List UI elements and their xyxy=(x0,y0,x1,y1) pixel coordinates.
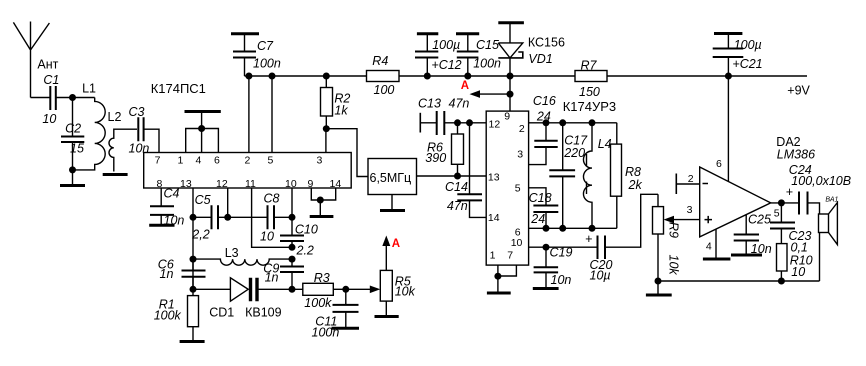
svg-text:L3: L3 xyxy=(225,246,239,260)
pin 6 wire xyxy=(529,227,617,229)
svg-text:150: 150 xyxy=(579,85,600,99)
svg-text:6,5МГц: 6,5МГц xyxy=(370,171,412,185)
capacitor C3 xyxy=(129,105,150,156)
speaker BA1 xyxy=(819,197,839,282)
svg-text:2: 2 xyxy=(688,173,694,185)
svg-text:10k: 10k xyxy=(667,255,681,276)
svg-text:ВА1: ВА1 xyxy=(825,197,838,204)
svg-text:10µ: 10µ xyxy=(590,269,611,283)
pins 9,14 bracket to common xyxy=(310,188,336,217)
svg-text:5: 5 xyxy=(515,182,521,194)
pin 2 wire right xyxy=(529,122,617,124)
svg-text:10n: 10n xyxy=(751,242,772,256)
svg-text:C19: C19 xyxy=(550,246,573,260)
svg-text:9: 9 xyxy=(308,178,314,190)
svg-text:7: 7 xyxy=(155,154,161,166)
resistor R7 xyxy=(575,59,607,100)
capacitor C5 xyxy=(191,193,227,242)
svg-text:L2: L2 xyxy=(108,110,122,124)
svg-text:C3: C3 xyxy=(129,105,145,119)
svg-text:VD1: VD1 xyxy=(528,52,552,66)
resistor R6 xyxy=(425,123,463,176)
wire and arrow to R5 xyxy=(346,286,381,294)
filter Z1 6.5MHz xyxy=(368,159,417,195)
pin 4 ground xyxy=(703,229,731,259)
antenna xyxy=(13,22,58,98)
svg-text:+: + xyxy=(585,232,592,246)
svg-text:C8: C8 xyxy=(264,192,280,206)
C4 on pin 8 xyxy=(149,187,184,228)
IC U2 K174UR3 xyxy=(486,99,616,265)
svg-text:R9: R9 xyxy=(667,222,681,238)
svg-text:100: 100 xyxy=(374,83,395,97)
ground below R9 xyxy=(646,281,672,295)
potentiometer R9 xyxy=(653,194,700,281)
svg-text:6: 6 xyxy=(716,158,722,170)
bottom rail R9 to speaker xyxy=(658,280,820,282)
resistor R4 xyxy=(367,54,400,97)
svg-text:C18: C18 xyxy=(529,191,552,205)
svg-text:2k: 2k xyxy=(628,178,643,192)
svg-text:R4: R4 xyxy=(372,54,388,68)
capacitor C14 xyxy=(445,123,486,218)
potentiometer R5 xyxy=(375,236,416,317)
capacitor C2 xyxy=(61,98,84,170)
svg-text:100k: 100k xyxy=(154,309,182,323)
inductor L3 xyxy=(193,246,292,265)
ground below filter xyxy=(380,195,405,211)
svg-text:12: 12 xyxy=(216,178,228,190)
pins 1,4,6 bracket to common xyxy=(185,112,221,153)
svg-text:R7: R7 xyxy=(581,59,598,73)
capacitor C25 xyxy=(731,213,772,257)
capacitor C16 xyxy=(529,94,558,165)
pin 5 wire up xyxy=(271,76,273,153)
pin 11 wire down xyxy=(252,188,292,247)
svg-text:C13: C13 xyxy=(418,97,441,111)
svg-text:11: 11 xyxy=(245,178,256,190)
svg-text:4: 4 xyxy=(196,154,202,166)
svg-text:10n: 10n xyxy=(551,273,572,287)
wire filter to pin 13 xyxy=(417,175,487,177)
svg-text:C4: C4 xyxy=(164,187,180,201)
resistor R10 xyxy=(777,244,813,281)
svg-text:2,2: 2,2 xyxy=(191,228,209,242)
svg-text:47n: 47n xyxy=(447,199,468,213)
svg-text:+C12: +C12 xyxy=(431,58,461,72)
ground below C2 xyxy=(60,170,85,186)
svg-text:7: 7 xyxy=(507,249,513,261)
svg-text:10k: 10k xyxy=(395,285,416,299)
svg-text:C14: C14 xyxy=(445,180,468,194)
pin 3 wire xyxy=(325,129,327,153)
svg-text:C1: C1 xyxy=(43,73,59,87)
ground below L2 xyxy=(103,173,128,176)
svg-text:12: 12 xyxy=(489,119,501,131)
wire C3 to pin 7 xyxy=(144,129,159,152)
wire C1 to L1 xyxy=(56,97,95,99)
capacitor C23 xyxy=(770,203,811,255)
output wire pin 5 xyxy=(771,202,799,204)
svg-text:100µ: 100µ xyxy=(432,38,460,52)
svg-text:1n: 1n xyxy=(160,267,174,281)
pin 12 wire xyxy=(444,122,486,124)
capacitor C7 xyxy=(231,34,281,76)
pin 10 wire xyxy=(529,246,598,248)
inductor L4 xyxy=(583,123,611,229)
node dot C2 bottom xyxy=(69,166,76,173)
svg-text:A: A xyxy=(392,238,400,250)
IC2 pins 1,7 to ground xyxy=(487,265,517,293)
svg-text:10: 10 xyxy=(285,178,297,190)
C9 stems xyxy=(291,259,293,289)
svg-text:10n: 10n xyxy=(129,142,150,156)
svg-text:10: 10 xyxy=(791,265,805,279)
wire antenna to C1 xyxy=(31,97,51,99)
svg-text:1k: 1k xyxy=(334,104,348,118)
svg-text:К174ПС1: К174ПС1 xyxy=(151,81,206,96)
capacitor C20 xyxy=(585,194,658,282)
C6 stems xyxy=(192,259,194,289)
svg-text:100n: 100n xyxy=(253,57,281,71)
capacitor C8 xyxy=(260,192,292,244)
svg-text:C16: C16 xyxy=(533,94,556,108)
svg-text:Ант: Ант xyxy=(37,58,58,72)
svg-text:C5: C5 xyxy=(195,193,211,207)
wire R2 to filter xyxy=(326,129,368,177)
svg-text:КС156: КС156 xyxy=(528,36,565,50)
svg-text:C15: C15 xyxy=(476,38,499,52)
svg-text:4: 4 xyxy=(706,241,712,253)
resistor R3 xyxy=(303,271,346,310)
pin 2 input terminal xyxy=(676,174,699,195)
capacitor C9 xyxy=(263,262,304,285)
capacitor C6 xyxy=(158,258,206,282)
capacitor C24 xyxy=(786,163,851,215)
capacitor C11 xyxy=(312,289,360,339)
svg-text:10: 10 xyxy=(511,237,523,249)
resistor R1 xyxy=(154,289,205,341)
svg-text:6: 6 xyxy=(214,154,220,166)
svg-text:10: 10 xyxy=(42,112,56,126)
capacitor C10 xyxy=(280,217,318,257)
zener VD1 KS156 xyxy=(498,23,565,76)
svg-text:L4: L4 xyxy=(598,137,612,151)
svg-text:3: 3 xyxy=(317,154,323,166)
svg-text:10: 10 xyxy=(260,230,274,244)
svg-text:1: 1 xyxy=(490,249,496,261)
svg-text:1n: 1n xyxy=(265,271,279,285)
pin 9 wire xyxy=(509,76,511,111)
svg-text:0,1: 0,1 xyxy=(791,241,808,255)
IC U1 K174PS1 xyxy=(144,81,352,190)
pin 6 wire to rail xyxy=(727,76,729,182)
svg-text:9: 9 xyxy=(504,111,510,123)
svg-text:КВ109: КВ109 xyxy=(245,306,282,320)
resistor R2 xyxy=(321,76,351,129)
svg-text:15: 15 xyxy=(70,142,84,156)
svg-text:220: 220 xyxy=(563,146,585,160)
capacitor C12 xyxy=(415,34,462,76)
node dot C1/C2/L1 xyxy=(69,94,76,101)
svg-text:C2: C2 xyxy=(65,122,81,136)
svg-text:3: 3 xyxy=(517,148,523,160)
inductor L1 xyxy=(73,82,106,170)
svg-text:100n: 100n xyxy=(312,326,340,340)
pin 10 wire down xyxy=(291,188,293,217)
svg-text:К174УР3: К174УР3 xyxy=(563,99,616,114)
svg-text:CD1: CD1 xyxy=(209,306,234,320)
svg-text:C7: C7 xyxy=(257,39,274,53)
svg-text:10n: 10n xyxy=(164,214,185,228)
capacitor C1 xyxy=(42,73,59,126)
svg-text:C10: C10 xyxy=(295,223,318,237)
svg-text:100n: 100n xyxy=(473,57,501,71)
svg-text:1: 1 xyxy=(178,154,184,166)
capacitor C19 xyxy=(533,246,573,289)
varicap CD1 KV109 xyxy=(193,278,303,320)
op-amp DA2 LM386 xyxy=(687,135,815,252)
svg-text:13: 13 xyxy=(180,178,192,190)
svg-text:13: 13 xyxy=(488,172,500,184)
capacitor C15 xyxy=(456,34,501,76)
svg-text:3: 3 xyxy=(687,204,693,216)
svg-text:R8: R8 xyxy=(625,165,641,179)
svg-text:2: 2 xyxy=(519,123,525,135)
svg-text:47n: 47n xyxy=(449,97,470,111)
svg-text:2.2: 2.2 xyxy=(296,244,314,258)
svg-text:R3: R3 xyxy=(314,271,330,285)
svg-text:5: 5 xyxy=(774,208,780,220)
svg-text:100k: 100k xyxy=(304,296,332,310)
svg-text:+C21: +C21 xyxy=(732,57,762,71)
capacitor C17 xyxy=(549,123,588,229)
resistor R8 xyxy=(611,123,643,229)
svg-text:2: 2 xyxy=(245,154,251,166)
svg-text:390: 390 xyxy=(425,151,446,165)
pin 12 wire down xyxy=(227,188,229,217)
svg-text:C25: C25 xyxy=(748,213,771,227)
svg-text:5: 5 xyxy=(268,154,274,166)
wire C5 to C8 xyxy=(228,216,268,218)
svg-text:100µ: 100µ xyxy=(734,38,762,52)
svg-text:100,0x10В: 100,0x10В xyxy=(791,174,851,188)
+9V rail xyxy=(245,75,808,77)
capacitor C13 xyxy=(418,97,469,136)
svg-text:L1: L1 xyxy=(82,82,96,96)
capacitor C18 xyxy=(529,188,559,229)
capacitor C21 xyxy=(713,34,763,77)
pin 13 wire down xyxy=(192,188,194,289)
node A arrow near pin 9 xyxy=(461,80,510,98)
svg-text:14: 14 xyxy=(488,212,500,224)
svg-text:+9V: +9V xyxy=(787,84,810,98)
inductor L2 xyxy=(108,110,138,172)
pin 2 wire up xyxy=(248,76,250,153)
svg-text:A: A xyxy=(461,80,469,92)
svg-text:LM386: LM386 xyxy=(777,148,815,162)
svg-text:24: 24 xyxy=(530,212,545,226)
